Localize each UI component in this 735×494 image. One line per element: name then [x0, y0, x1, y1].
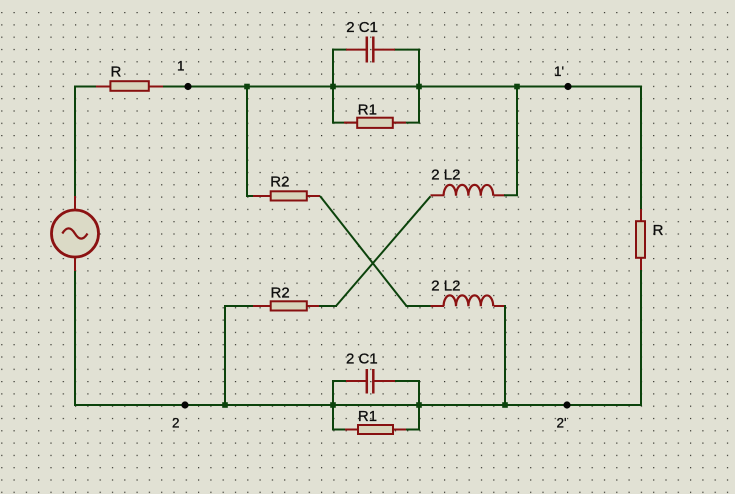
node 1' junction dot: [564, 83, 571, 90]
wire capacitor row bottom box right: [394, 380, 420, 382]
wire diagonal from bottom R2 to top 2L2: [336, 196, 431, 306]
capacitor 2C1 (bottom): [346, 369, 395, 394]
svg-text:1': 1': [554, 64, 564, 79]
AC source V1: [52, 196, 99, 271]
svg-text:R: R: [653, 222, 664, 239]
junction square at bottom R2 branch: [222, 402, 228, 408]
inductor 2L2 (top): [431, 185, 506, 196]
node 2 junction dot: [181, 401, 188, 408]
top parallel box right vertical wire: [418, 49, 420, 124]
junction square at top R2 branch: [244, 84, 250, 90]
wire diagonal from top R2 to bottom 2L2: [320, 196, 407, 306]
svg-text:2 L2: 2 L2: [431, 167, 460, 184]
node 2' junction dot: [563, 401, 570, 408]
resistor R (load, right side): [636, 209, 645, 270]
wire R1 row bottom box: [332, 429, 420, 431]
resistor R2 (bottom): [253, 301, 320, 310]
junction square bottom box left: [330, 402, 336, 408]
wire left vertical (source branch upper): [74, 86, 76, 198]
resistor R2 (top): [253, 191, 320, 200]
wire vertical down to top R2: [246, 87, 248, 198]
inductor 2L2 (bottom): [431, 295, 506, 306]
wire right vertical (load branch lower): [640, 258, 642, 406]
svg-text:2 C1: 2 C1: [346, 19, 378, 36]
svg-text:1: 1: [177, 59, 185, 74]
svg-text:R2: R2: [270, 174, 289, 191]
svg-text:R1: R1: [358, 408, 377, 425]
wire from bottom 2L2 down to bottom rail: [504, 306, 505, 405]
svg-text:2 C1: 2 C1: [346, 351, 378, 368]
wire capacitor row top box left: [332, 49, 347, 51]
junction square bottom box right: [416, 402, 422, 408]
resistor R1 (bottom): [345, 425, 406, 434]
resistor R1 (top): [344, 118, 406, 128]
svg-text:R: R: [111, 63, 122, 80]
wire bottom rail: [74, 404, 642, 406]
svg-text:R1: R1: [358, 102, 377, 119]
wire R1 row top box: [332, 122, 420, 124]
wire horizontal after bottom R2: [319, 305, 337, 307]
wire capacitor row bottom box left: [332, 380, 347, 382]
wire horizontal into bottom R2: [224, 305, 256, 307]
junction square top 2L2 branch: [514, 84, 520, 90]
wire from top 2L2 to right corner: [504, 87, 517, 196]
node 1 junction dot: [184, 83, 191, 90]
svg-text:R2: R2: [271, 285, 290, 302]
wire left vertical (source branch lower): [74, 270, 76, 406]
bottom parallel box right vertical wire: [418, 380, 420, 431]
wire capacitor row top box right: [394, 49, 420, 51]
svg-text:2': 2': [557, 415, 567, 430]
svg-text:2 L2: 2 L2: [431, 277, 460, 294]
top parallel box left vertical wire: [332, 49, 334, 124]
junction square top box left: [330, 84, 336, 90]
wire top rail from node left corner to right corner: [74, 86, 642, 88]
wire horizontal into top R2: [246, 195, 256, 197]
wire vertical up to bottom R2: [224, 306, 226, 405]
wire right vertical (load branch upper): [640, 86, 642, 211]
svg-text:2: 2: [172, 415, 180, 430]
capacitor 2C1 (top): [346, 37, 395, 63]
resistor R (series source resistor): [96, 81, 163, 91]
junction square top box right: [416, 84, 422, 90]
bottom parallel box left vertical wire: [332, 380, 334, 431]
junction square bottom 2L2 branch: [502, 402, 508, 408]
wire horizontal into bottom 2L2: [406, 305, 433, 307]
